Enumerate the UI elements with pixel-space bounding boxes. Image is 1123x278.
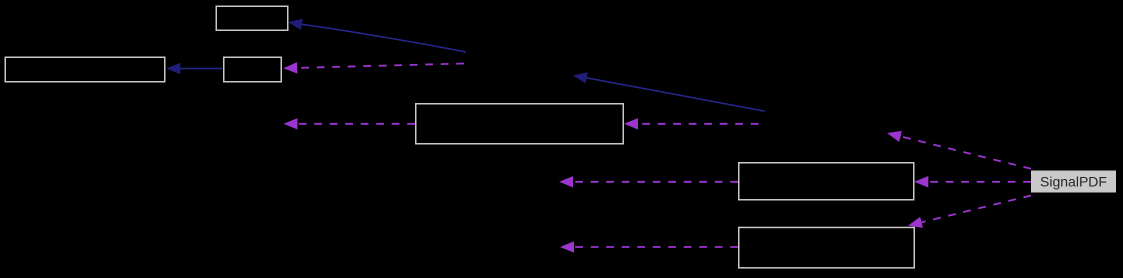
svg-text:SignalPDF: SignalPDF bbox=[1040, 174, 1107, 190]
